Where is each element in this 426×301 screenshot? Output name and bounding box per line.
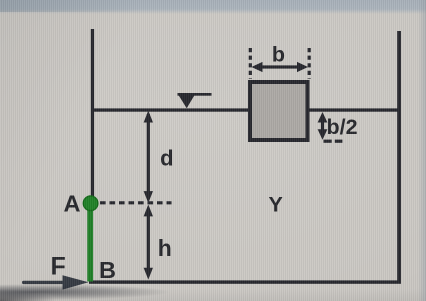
d dimension line with arrows (144, 111, 153, 203)
h dimension line with arrows (144, 205, 153, 280)
tank bottom wall (89, 280, 401, 283)
dashed level line at hinge A (100, 201, 172, 204)
water surface line left segment (92, 108, 249, 111)
force F arrow (22, 275, 89, 289)
dashed extension tick right of b dimension (308, 48, 311, 79)
hinge pin A (green dot) (83, 196, 98, 211)
dashed extension tick left of b dimension (249, 48, 252, 79)
water surface line right segment (308, 108, 400, 111)
right tank wall (397, 31, 401, 282)
b dimension double arrow (252, 62, 309, 72)
b/2 dimension double arrow (318, 112, 328, 140)
water surface symbol (178, 93, 212, 108)
dashed draft level line right of block (324, 140, 343, 143)
floating block B (250, 82, 308, 140)
left tank wall (91, 29, 94, 204)
gate AB (green) (87, 203, 93, 282)
